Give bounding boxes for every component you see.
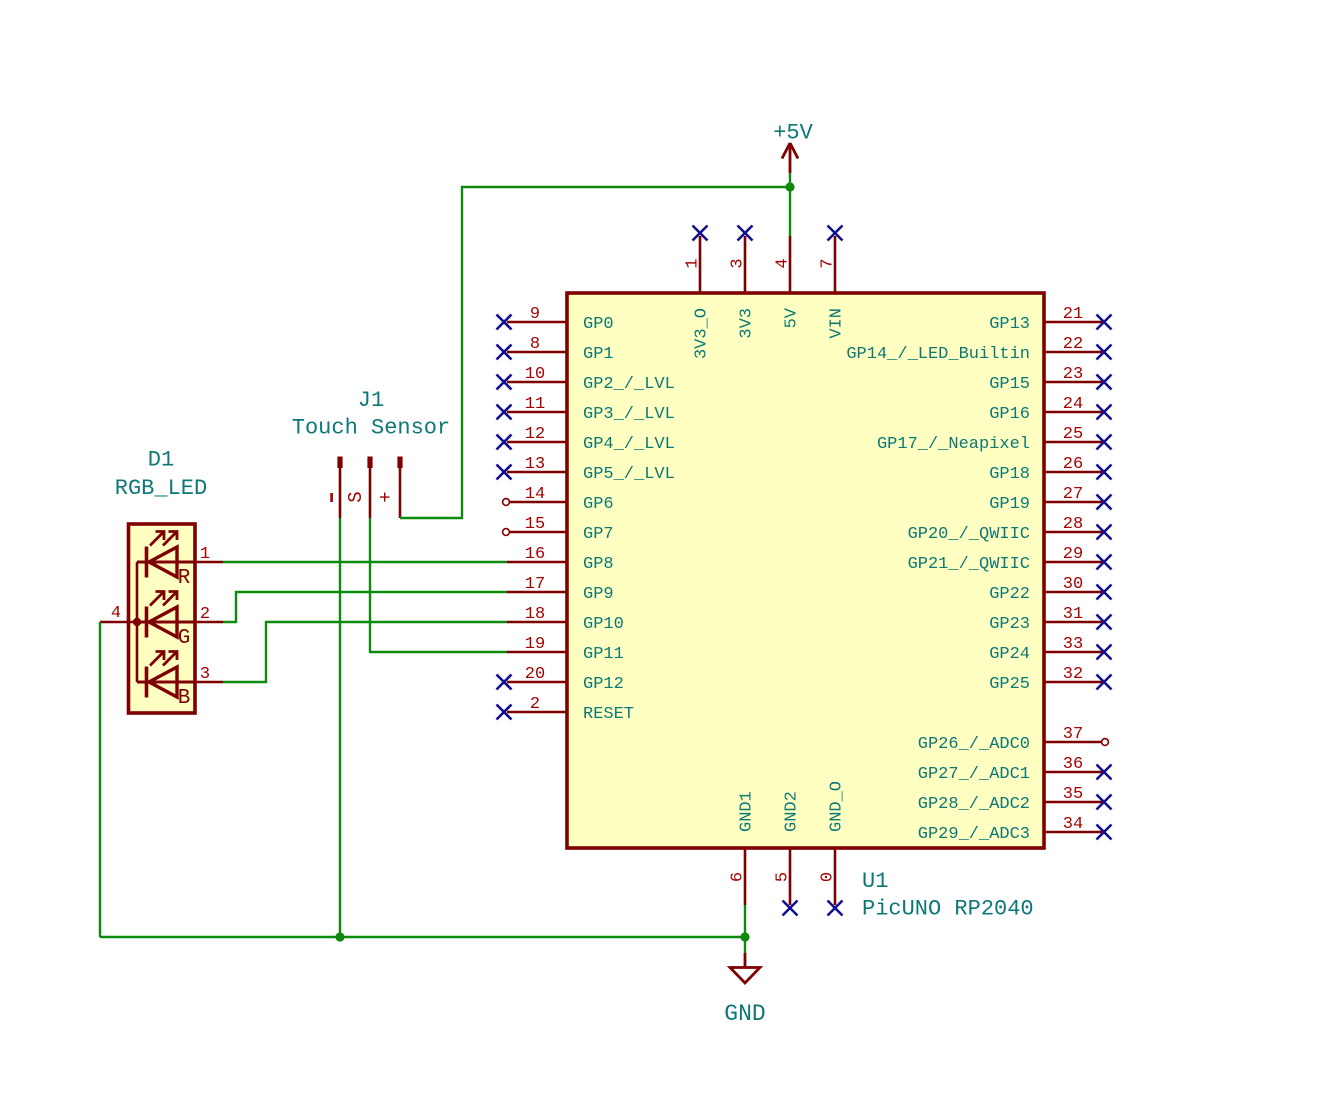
svg-text:2: 2: [200, 605, 210, 624]
svg-text:11: 11: [525, 395, 545, 414]
D1 pin 2: [195, 621, 223, 624]
pin 10 GP2_/_LVL (U1 left): [507, 381, 567, 384]
svg-text:29: 29: [1063, 545, 1083, 564]
pin 14 GP6 (U1 left): [510, 501, 567, 504]
diode D1 body: [129, 524, 196, 713]
svg-text:R: R: [178, 567, 191, 590]
svg-text:GP14_/_LED_Builtin: GP14_/_LED_Builtin: [846, 345, 1030, 364]
svg-text:GP19: GP19: [989, 495, 1030, 514]
svg-text:5: 5: [774, 872, 793, 882]
pin 34 GP29_/_ADC3 (U1 right): [1044, 831, 1102, 834]
wire D1 pin3 to GP10: [223, 622, 507, 682]
svg-text:21: 21: [1063, 305, 1083, 324]
pin 21 GP13 (U1 right): [1044, 321, 1102, 324]
pin 4 5V (U1 top): [789, 236, 792, 293]
wire D1 pin2 to GP9: [223, 592, 507, 622]
pin 7 VIN (U1 top): [834, 236, 837, 293]
wire GND rail horizontal: [100, 936, 745, 938]
J1 pin S: [367, 457, 372, 469]
svg-text:GP8: GP8: [583, 555, 614, 574]
svg-text:GP28_/_ADC2: GP28_/_ADC2: [918, 795, 1030, 814]
pin 22 GP14_/_LED_Builtin (U1 right): [1044, 351, 1102, 354]
pin 18 GP10 (U1 left): [507, 621, 567, 624]
pin 26 GP18 (U1 right): [1044, 471, 1102, 474]
svg-text:GP10: GP10: [583, 615, 624, 634]
svg-text:13: 13: [525, 455, 545, 474]
D1 pin 1: [195, 561, 223, 564]
svg-text:33: 33: [1063, 635, 1083, 654]
pin 0 GND_O (U1 bottom): [834, 848, 837, 905]
wire J1 plus to +5V: [400, 187, 790, 518]
wire J1 minus to GND rail: [339, 518, 341, 937]
svg-text:GP26_/_ADC0: GP26_/_ADC0: [918, 735, 1030, 754]
svg-text:GP25: GP25: [989, 675, 1030, 694]
svg-text:24: 24: [1063, 395, 1083, 414]
wire GND1 pin to GND symbol: [744, 905, 746, 953]
svg-text:4: 4: [111, 604, 121, 623]
op U1 body: [567, 293, 1044, 848]
svg-text:VIN: VIN: [828, 308, 847, 339]
D1 pin 4: [100, 621, 137, 624]
svg-text:GP6: GP6: [583, 495, 614, 514]
svg-text:20: 20: [525, 665, 545, 684]
junction at +5V node: [785, 182, 794, 191]
pin 36 GP27_/_ADC1 (U1 right): [1044, 771, 1102, 774]
pin 17 GP9 (U1 left): [507, 591, 567, 594]
J1 pin -: [337, 457, 342, 469]
svg-text:8: 8: [530, 335, 540, 354]
svg-text:GP20_/_QWIIC: GP20_/_QWIIC: [908, 525, 1030, 544]
D1 internal anode bus: [136, 562, 139, 682]
pin 1 3V3_O (U1 top): [699, 236, 702, 293]
svg-text:12: 12: [525, 425, 545, 444]
LED G of D1: [137, 621, 195, 624]
svg-text:28: 28: [1063, 515, 1083, 534]
svg-text:GP2_/_LVL: GP2_/_LVL: [583, 375, 675, 394]
pin 20 GP12 (U1 left): [507, 681, 567, 684]
svg-text:10: 10: [525, 365, 545, 384]
svg-text:J1: J1: [358, 388, 384, 413]
svg-text:36: 36: [1063, 755, 1083, 774]
pin 37 GP26_/_ADC0 (U1 right): [1044, 741, 1101, 744]
pin 6 GND1 (U1 bottom): [744, 848, 747, 905]
svg-text:6: 6: [729, 872, 748, 882]
pin 30 GP22 (U1 right): [1044, 591, 1102, 594]
svg-text:GP7: GP7: [583, 525, 614, 544]
pin 27 GP19 (U1 right): [1044, 501, 1102, 504]
junction J1 minus on GND rail: [335, 932, 344, 941]
svg-text:GP15: GP15: [989, 375, 1030, 394]
svg-text:GP3_/_LVL: GP3_/_LVL: [583, 405, 675, 424]
svg-text:G: G: [178, 627, 191, 650]
svg-text:27: 27: [1063, 485, 1083, 504]
pin 28 GP20_/_QWIIC (U1 right): [1044, 531, 1102, 534]
svg-text:GP17_/_Neapixel: GP17_/_Neapixel: [877, 435, 1030, 454]
svg-text:GND2: GND2: [783, 791, 802, 832]
wire +5V stem to 5V pin: [789, 173, 791, 236]
pin 33 GP24 (U1 right): [1044, 651, 1102, 654]
svg-text:35: 35: [1063, 785, 1083, 804]
svg-text:17: 17: [525, 575, 545, 594]
pin 35 GP28_/_ADC2 (U1 right): [1044, 801, 1102, 804]
pin 2 RESET (U1 left): [507, 711, 567, 714]
LED B of D1: [137, 681, 195, 684]
svg-text:3: 3: [729, 258, 748, 268]
svg-text:+5V: +5V: [773, 121, 813, 146]
svg-text:GP0: GP0: [583, 315, 614, 334]
svg-text:PicUNO RP2040: PicUNO RP2040: [862, 897, 1034, 922]
svg-text:GP1: GP1: [583, 345, 614, 364]
pin 24 GP16 (U1 right): [1044, 411, 1102, 414]
svg-text:GP12: GP12: [583, 675, 624, 694]
svg-text:30: 30: [1063, 575, 1083, 594]
LED R of D1: [137, 561, 195, 564]
svg-text:9: 9: [530, 305, 540, 324]
pin 23 GP15 (U1 right): [1044, 381, 1102, 384]
svg-text:GP4_/_LVL: GP4_/_LVL: [583, 435, 675, 454]
svg-text:B: B: [178, 687, 191, 710]
svg-text:4: 4: [774, 258, 793, 268]
svg-text:GP13: GP13: [989, 315, 1030, 334]
svg-text:1: 1: [200, 545, 210, 564]
svg-text:23: 23: [1063, 365, 1083, 384]
svg-text:GND1: GND1: [738, 791, 757, 832]
pin 12 GP4_/_LVL (U1 left): [507, 441, 567, 444]
svg-text:GP11: GP11: [583, 645, 624, 664]
svg-text:GND: GND: [724, 1001, 765, 1027]
svg-text:GP24: GP24: [989, 645, 1030, 664]
svg-text:22: 22: [1063, 335, 1083, 354]
svg-text:26: 26: [1063, 455, 1083, 474]
svg-text:7: 7: [819, 258, 838, 268]
svg-text:18: 18: [525, 605, 545, 624]
pin 13 GP5_/_LVL (U1 left): [507, 471, 567, 474]
pin 31 GP23 (U1 right): [1044, 621, 1102, 624]
svg-text:GP22: GP22: [989, 585, 1030, 604]
svg-text:D1: D1: [148, 448, 174, 473]
pin 32 GP25 (U1 right): [1044, 681, 1102, 684]
svg-text:3V3: 3V3: [738, 308, 757, 339]
pin 11 GP3_/_LVL (U1 left): [507, 411, 567, 414]
svg-text:3: 3: [200, 665, 210, 684]
svg-text:2: 2: [530, 695, 540, 714]
pin 8 GP1 (U1 left): [507, 351, 567, 354]
svg-text:37: 37: [1063, 725, 1083, 744]
svg-text:31: 31: [1063, 605, 1083, 624]
svg-text:GP27_/_ADC1: GP27_/_ADC1: [918, 765, 1030, 784]
svg-text:GP18: GP18: [989, 465, 1030, 484]
svg-text:5V: 5V: [783, 307, 802, 328]
svg-text:+: +: [375, 491, 397, 502]
pin 9 GP0 (U1 left): [507, 321, 567, 324]
power +5V symbol: [782, 143, 798, 173]
pin 3 3V3 (U1 top): [744, 236, 747, 293]
svg-text:25: 25: [1063, 425, 1083, 444]
svg-text:GP5_/_LVL: GP5_/_LVL: [583, 465, 675, 484]
D1 pin4 junction on bus: [133, 618, 141, 626]
svg-text:14: 14: [525, 485, 545, 504]
svg-text:15: 15: [525, 515, 545, 534]
pin 5 GND2 (U1 bottom): [789, 848, 792, 905]
svg-text:32: 32: [1063, 665, 1083, 684]
wire D1 pin4 down: [99, 622, 101, 937]
svg-text:S: S: [345, 491, 367, 502]
svg-text:GP21_/_QWIIC: GP21_/_QWIIC: [908, 555, 1030, 574]
wire J1 S to GP11: [370, 518, 507, 652]
svg-text:GP23: GP23: [989, 615, 1030, 634]
wire D1 pin1 to GP8: [223, 561, 507, 563]
svg-text:RGB_LED: RGB_LED: [115, 476, 207, 501]
svg-text:GP9: GP9: [583, 585, 614, 604]
svg-text:Touch Sensor: Touch Sensor: [292, 416, 450, 441]
J1 pin +: [397, 457, 402, 469]
pin 19 GP11 (U1 left): [507, 651, 567, 654]
svg-text:3V3_O: 3V3_O: [693, 308, 712, 359]
svg-text:GND_O: GND_O: [828, 781, 847, 832]
svg-text:0: 0: [819, 872, 838, 882]
pin 29 GP21_/_QWIIC (U1 right): [1044, 561, 1102, 564]
pin 16 GP8 (U1 left): [507, 561, 567, 564]
svg-text:U1: U1: [862, 869, 888, 894]
svg-text:GP16: GP16: [989, 405, 1030, 424]
junction at GND below GND1: [740, 932, 749, 941]
svg-text:34: 34: [1063, 815, 1083, 834]
svg-text:19: 19: [525, 635, 545, 654]
pin 15 GP7 (U1 left): [510, 531, 567, 534]
power GND symbol: [744, 953, 747, 967]
pin 25 GP17_/_Neapixel (U1 right): [1044, 441, 1102, 444]
svg-text:RESET: RESET: [583, 705, 634, 724]
svg-text:16: 16: [525, 545, 545, 564]
svg-text:1: 1: [684, 258, 703, 268]
svg-text:GP29_/_ADC3: GP29_/_ADC3: [918, 825, 1030, 844]
D1 pin 3: [195, 681, 223, 684]
